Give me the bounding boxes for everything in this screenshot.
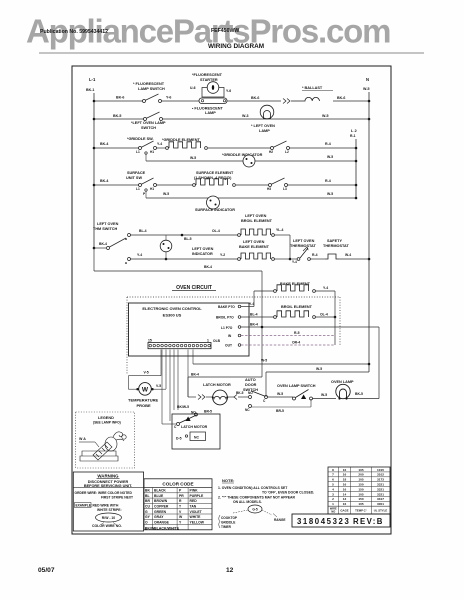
svg-text:W-5: W-5 bbox=[321, 393, 327, 397]
svg-text:SWITCH: SWITCH bbox=[243, 388, 258, 392]
wire OUT dashed bbox=[241, 344, 335, 346]
junction L1-b bbox=[93, 118, 96, 121]
svg-text:COOKTOP: COOKTOP bbox=[221, 516, 238, 520]
svg-text:BROIL ELEMENT: BROIL ELEMENT bbox=[241, 219, 273, 223]
svg-text:BLACK: BLACK bbox=[154, 489, 166, 493]
svg-text:318045323: 318045323 bbox=[297, 517, 350, 526]
svg-text:R-1: R-1 bbox=[350, 134, 356, 138]
svg-text:H3: H3 bbox=[267, 187, 271, 191]
svg-text:OVEN LAMP: OVEN LAMP bbox=[331, 380, 354, 384]
L2 bus wire bbox=[355, 139, 357, 198]
svg-text:Publication No. 5995434412: Publication No. 5995434412 bbox=[40, 29, 108, 35]
svg-text:LEFT OVEN: LEFT OVEN bbox=[192, 247, 214, 251]
svg-text:BK-6: BK-6 bbox=[116, 96, 124, 100]
svg-text:L-1: L-1 bbox=[89, 77, 96, 82]
svg-text:GREEN: GREEN bbox=[154, 510, 167, 514]
svg-text:YELLOW: YELLOW bbox=[190, 520, 205, 524]
svg-text:O: O bbox=[145, 520, 148, 524]
svg-text:BK-6: BK-6 bbox=[337, 96, 345, 100]
svg-text:1: 1 bbox=[207, 339, 209, 343]
svg-text:2. "*" THESE COMPONENTS MAY NO: 2. "*" THESE COMPONENTS MAY NOT APPEAR bbox=[218, 496, 295, 500]
svg-text:BLUE: BLUE bbox=[154, 494, 164, 498]
svg-text:W-4: W-4 bbox=[345, 253, 351, 257]
wire row4 left bbox=[94, 184, 139, 186]
svg-text:UL STYLE: UL STYLE bbox=[374, 509, 388, 513]
svg-text:NO: NO bbox=[191, 411, 196, 415]
svg-text:D-5: D-5 bbox=[176, 437, 182, 441]
svg-text:LAMP: LAMP bbox=[259, 129, 270, 133]
svg-text:3102: 3102 bbox=[377, 473, 384, 477]
junction L1-c bbox=[93, 147, 96, 150]
junction L1-row bbox=[261, 326, 264, 329]
wire griddle indicator bbox=[146, 160, 356, 162]
wire lamp switch to lamp bbox=[313, 398, 337, 400]
svg-text:1: 1 bbox=[332, 502, 334, 506]
svg-text:8: 8 bbox=[332, 468, 334, 472]
svg-text:ORANGE: ORANGE bbox=[154, 520, 170, 524]
svg-text:GRIDDLE: GRIDDLE bbox=[221, 521, 235, 525]
svg-text:YL-4: YL-4 bbox=[276, 228, 283, 232]
latch motor cam switch bbox=[177, 423, 180, 426]
svg-text:THERMOSTAT: THERMOSTAT bbox=[290, 244, 316, 248]
svg-text:150: 150 bbox=[358, 497, 363, 501]
svg-text:Y-6: Y-6 bbox=[226, 89, 231, 93]
svg-text:BROIL P7O: BROIL P7O bbox=[216, 316, 234, 320]
wire row1 to N bbox=[333, 100, 369, 102]
disconnect latch left bbox=[198, 395, 201, 400]
oven circuit dashed box bbox=[127, 296, 340, 298]
svg-text:NC: NC bbox=[194, 435, 199, 439]
svg-text:1. OVEN CONDITION) ALL CONTROL: 1. OVEN CONDITION) ALL CONTROLS SET bbox=[218, 486, 288, 490]
svg-text:THM SWITCH: THM SWITCH bbox=[93, 227, 118, 231]
svg-text:CU: CU bbox=[145, 505, 150, 509]
wire gauge table bbox=[328, 467, 390, 514]
svg-text:BK-4: BK-4 bbox=[250, 323, 258, 327]
svg-text:BAKE ELEMENT: BAKE ELEMENT bbox=[239, 245, 270, 249]
temperature probe bbox=[139, 383, 152, 396]
svg-text:WIRING DIAGRAM: WIRING DIAGRAM bbox=[208, 43, 264, 50]
svg-text:105: 105 bbox=[358, 492, 363, 496]
svg-text:* BALLAST: * BALLAST bbox=[302, 86, 323, 90]
svg-text:2: 2 bbox=[332, 497, 334, 501]
svg-text:STARTER: STARTER bbox=[200, 78, 218, 82]
svg-text:150: 150 bbox=[358, 487, 363, 491]
svg-text:16: 16 bbox=[343, 483, 347, 487]
junction broil-a bbox=[181, 234, 184, 237]
svg-text:W-5: W-5 bbox=[327, 192, 333, 196]
junction L1-a bbox=[93, 100, 96, 103]
svg-text:FIRST STRIPE NEXT: FIRST STRIPE NEXT bbox=[101, 496, 133, 500]
oven lamp switch marker bbox=[301, 395, 306, 400]
wire row4 mid2 bbox=[236, 184, 269, 186]
svg-text:W: W bbox=[142, 386, 149, 393]
left oven lamp switch bbox=[144, 118, 147, 121]
svg-text:18: 18 bbox=[343, 478, 347, 482]
svg-text:RED: RED bbox=[190, 499, 198, 503]
svg-text:05/07: 05/07 bbox=[38, 567, 55, 574]
svg-text:EXAMPLE:: EXAMPLE: bbox=[76, 504, 92, 508]
svg-text:BR-5: BR-5 bbox=[276, 409, 284, 413]
svg-text:*GRIDDLE INDICATOR: *GRIDDLE INDICATOR bbox=[222, 153, 263, 157]
electronic oven control U1 bbox=[129, 303, 250, 356]
svg-text:16: 16 bbox=[343, 473, 347, 477]
wire neutral W-5 row bbox=[193, 363, 369, 365]
svg-text:BK-4: BK-4 bbox=[191, 373, 199, 377]
latch cam marker bbox=[186, 417, 191, 422]
svg-text:DOOR: DOOR bbox=[245, 383, 257, 387]
svg-text:BLACK/WHITE: BLACK/WHITE bbox=[154, 526, 180, 530]
svg-text:*FLUORESCENT: *FLUORESCENT bbox=[192, 73, 223, 77]
wire door sw to lamp switch bbox=[268, 396, 294, 398]
wire broil right bbox=[275, 234, 291, 236]
svg-text:(1 SHOWN, 4 REQ'D): (1 SHOWN, 4 REQ'D) bbox=[194, 176, 232, 180]
wire latch to door switch bbox=[238, 396, 248, 398]
wire strip drop 1 bbox=[160, 350, 162, 376]
svg-text:R-4: R-4 bbox=[325, 142, 331, 146]
legend lamp drawing bbox=[80, 451, 118, 461]
svg-text:OLB: OLB bbox=[213, 339, 221, 343]
wire row1 right bbox=[227, 100, 281, 102]
svg-text:*GRIDDLE SW.: *GRIDDLE SW. bbox=[127, 137, 154, 141]
svg-text:W-5: W-5 bbox=[327, 155, 333, 159]
wire row3 to L2 bbox=[289, 147, 356, 149]
svg-text:1015: 1015 bbox=[377, 468, 384, 472]
N bus wire bbox=[368, 92, 370, 372]
junction broil return bbox=[334, 316, 337, 319]
header underline bbox=[39, 52, 424, 54]
wire L1 power row bbox=[241, 326, 379, 328]
disconnect plug row1 bbox=[283, 99, 286, 104]
wire bake power bbox=[241, 306, 254, 308]
svg-text:PR: PR bbox=[179, 494, 184, 498]
svg-text:SWITCH: SWITCH bbox=[141, 126, 156, 130]
svg-text:Y-4: Y-4 bbox=[249, 302, 254, 306]
wire row4 mid bbox=[156, 184, 193, 186]
svg-text:PURPLE: PURPLE bbox=[190, 494, 204, 498]
disconnect latch right bbox=[234, 395, 237, 400]
svg-text:BL: BL bbox=[145, 494, 150, 498]
svg-text:W-5: W-5 bbox=[261, 359, 267, 363]
junction L2-d bbox=[355, 197, 358, 200]
svg-text:R-5: R-5 bbox=[294, 331, 300, 335]
left oven lamp bbox=[260, 105, 274, 119]
svg-text:TO 'OFF', EVEN DOOR CLOSED.: TO 'OFF', EVEN DOOR CLOSED. bbox=[262, 491, 314, 495]
svg-text:GRAY: GRAY bbox=[154, 515, 164, 519]
junction N-c bbox=[368, 258, 371, 261]
svg-text:LATCH MOTOR: LATCH MOTOR bbox=[203, 383, 231, 387]
svg-text:LEFT OVEN: LEFT OVEN bbox=[293, 239, 315, 243]
svg-text:105: 105 bbox=[358, 468, 363, 472]
svg-text:WHITE STRIPE:: WHITE STRIPE: bbox=[97, 508, 122, 512]
wire strip drop 3 bbox=[165, 350, 167, 390]
svg-text:SURFACE INDICATOR: SURFACE INDICATOR bbox=[195, 208, 235, 212]
svg-text:OL-4: OL-4 bbox=[212, 229, 220, 233]
wire row1 mid bbox=[161, 100, 200, 102]
wire strip drop 8 bbox=[192, 350, 194, 365]
part number box bbox=[292, 514, 390, 527]
svg-text:BL-4: BL-4 bbox=[250, 313, 258, 317]
svg-text:Y-6: Y-6 bbox=[166, 96, 171, 100]
svg-text:V-5: V-5 bbox=[144, 371, 149, 375]
junction N-b bbox=[368, 118, 371, 121]
svg-text:3173: 3173 bbox=[377, 478, 384, 482]
svg-text:ES300 US: ES300 US bbox=[163, 313, 182, 318]
svg-text:W-5: W-5 bbox=[363, 87, 370, 91]
wire strip drop 6 bbox=[177, 350, 179, 411]
svg-text:V-5: V-5 bbox=[156, 384, 161, 388]
svg-text:LEFT OVEN: LEFT OVEN bbox=[245, 214, 267, 218]
svg-text:3: 3 bbox=[332, 492, 334, 496]
svg-text:W-5: W-5 bbox=[277, 392, 283, 396]
svg-text:14: 14 bbox=[343, 492, 347, 496]
svg-text:BK: BK bbox=[145, 489, 150, 493]
latch NC terminal box bbox=[190, 432, 206, 441]
svg-text:150: 150 bbox=[358, 483, 363, 487]
warning box bbox=[73, 472, 143, 531]
svg-text:WARNING: WARNING bbox=[97, 474, 119, 479]
svg-text:Y-4: Y-4 bbox=[323, 286, 328, 290]
svg-text:LATCH MOTOR: LATCH MOTOR bbox=[181, 425, 208, 429]
svg-text:3001: 3001 bbox=[377, 502, 384, 506]
wire safety to N bbox=[339, 258, 369, 260]
svg-text:LAMP SWITCH: LAMP SWITCH bbox=[138, 87, 165, 91]
svg-text:W-5: W-5 bbox=[322, 114, 329, 118]
svg-text:Y-4: Y-4 bbox=[157, 142, 162, 146]
latch motor switch box bbox=[172, 414, 220, 449]
color code table bbox=[144, 479, 212, 530]
wire strip drop 4 bbox=[169, 350, 171, 422]
svg-text:LEGEND: LEGEND bbox=[98, 416, 114, 420]
svg-text:W-5: W-5 bbox=[316, 367, 322, 371]
svg-text:R/W - 10: R/W - 10 bbox=[102, 516, 115, 520]
svg-text:OVEN LAMP SWITCH: OVEN LAMP SWITCH bbox=[277, 384, 316, 388]
svg-text:OL-4: OL-4 bbox=[320, 313, 328, 317]
svg-text:3317: 3317 bbox=[377, 497, 384, 501]
svg-text:Y-4: Y-4 bbox=[137, 253, 142, 257]
svg-text:200: 200 bbox=[358, 473, 363, 477]
wire lamp riser to L1 bbox=[378, 327, 380, 399]
svg-text:L1: L1 bbox=[136, 187, 140, 191]
svg-text:L1 P7O: L1 P7O bbox=[221, 326, 233, 330]
wire strip drop 7 bbox=[187, 350, 189, 398]
griddle thermostat switch bbox=[271, 147, 274, 150]
surface switch pilot terminal bbox=[145, 189, 147, 191]
auto door switch NC contact bbox=[249, 405, 252, 408]
svg-text:N: N bbox=[366, 77, 369, 82]
svg-text:INDICATOR: INDICATOR bbox=[192, 252, 213, 256]
wire row3 mid2 bbox=[208, 147, 271, 149]
svg-text:*LEFT OVEN LAMP: *LEFT OVEN LAMP bbox=[131, 121, 166, 125]
svg-text:105: 105 bbox=[358, 478, 363, 482]
wire strip drop 2 bbox=[161, 350, 163, 425]
svg-text:5: 5 bbox=[332, 483, 334, 487]
surface thermostat switch bbox=[269, 184, 272, 187]
svg-text:W A: W A bbox=[79, 437, 86, 441]
svg-text:RANGE: RANGE bbox=[274, 518, 286, 522]
wire L1 drop to oven circuit bbox=[93, 248, 95, 271]
junction L1-e bbox=[93, 247, 96, 250]
svg-text:BAKE P7O: BAKE P7O bbox=[218, 305, 235, 309]
svg-text:15: 15 bbox=[148, 339, 152, 343]
svg-text:OUT: OUT bbox=[225, 344, 232, 348]
svg-text:6: 6 bbox=[332, 478, 334, 482]
svg-text:H2: H2 bbox=[269, 150, 273, 154]
svg-text:BK-4: BK-4 bbox=[100, 142, 108, 146]
svg-text:SAFETY: SAFETY bbox=[327, 239, 342, 243]
svg-text:UNIT SW: UNIT SW bbox=[126, 176, 142, 180]
svg-text:LAMP: LAMP bbox=[205, 111, 216, 115]
svg-text:SURFACE: SURFACE bbox=[127, 171, 146, 175]
svg-text:TAN: TAN bbox=[190, 505, 197, 509]
svg-text:BROIL ELEMENT: BROIL ELEMENT bbox=[281, 305, 313, 309]
wire lamp to riser bbox=[347, 398, 379, 400]
svg-text:H1: H1 bbox=[150, 187, 154, 191]
wire bake return bbox=[316, 290, 336, 292]
wire row3 mid bbox=[156, 147, 166, 149]
wire broil return drop bbox=[334, 317, 336, 345]
svg-text:TEMP C°: TEMP C° bbox=[355, 509, 367, 513]
wire code example oval bbox=[96, 513, 122, 522]
svg-text:LEFT OVEN: LEFT OVEN bbox=[97, 222, 119, 226]
svg-text:PROBE: PROBE bbox=[137, 403, 152, 408]
svg-text:COPPER: COPPER bbox=[154, 505, 169, 509]
svg-text:OVEN CIRCUIT: OVEN CIRCUIT bbox=[176, 285, 212, 291]
junction L2-c bbox=[355, 184, 358, 187]
svg-text:ON ALL MODELS.: ON ALL MODELS. bbox=[233, 500, 262, 504]
svg-text:BK-5: BK-5 bbox=[355, 392, 363, 396]
svg-text:16: 16 bbox=[343, 468, 347, 472]
svg-text:REV:B: REV:B bbox=[353, 517, 384, 526]
wire IN dashed bbox=[241, 335, 335, 337]
svg-text:L3: L3 bbox=[283, 187, 287, 191]
svg-text:L1: L1 bbox=[136, 150, 140, 154]
svg-text:FEF450WW: FEF450WW bbox=[211, 28, 239, 34]
svg-text:BK-5: BK-5 bbox=[113, 114, 121, 118]
svg-text:NOTE:: NOTE: bbox=[222, 478, 234, 483]
svg-text:R-4: R-4 bbox=[312, 253, 318, 257]
svg-text:AUTO: AUTO bbox=[245, 378, 256, 382]
svg-text:BK-4: BK-4 bbox=[100, 179, 108, 183]
L1 bus wire bbox=[93, 93, 95, 249]
svg-text:7: 7 bbox=[332, 473, 334, 477]
svg-text:13: 13 bbox=[343, 497, 347, 501]
svg-text:PINK: PINK bbox=[190, 489, 199, 493]
junction L1-d bbox=[93, 184, 96, 187]
svg-text:RED WIRE WITH: RED WIRE WITH bbox=[93, 504, 119, 508]
svg-text:BK-1: BK-1 bbox=[86, 88, 94, 92]
svg-text:BEFORE SERVICING UNIT.: BEFORE SERVICING UNIT. bbox=[84, 484, 132, 488]
wire row2 left bbox=[94, 118, 144, 120]
svg-text:BK-6: BK-6 bbox=[251, 96, 259, 100]
svg-text:BR: BR bbox=[145, 499, 150, 503]
junction bake-a bbox=[165, 258, 168, 261]
svg-text:G-5: G-5 bbox=[252, 508, 258, 512]
svg-text:105: 105 bbox=[358, 502, 363, 506]
svg-text:3321: 3321 bbox=[377, 483, 384, 487]
wire row2 mid bbox=[162, 118, 369, 120]
svg-text:U-6: U-6 bbox=[190, 86, 196, 90]
svg-text:LEFT OVEN: LEFT OVEN bbox=[243, 240, 265, 244]
svg-text:NC: NC bbox=[245, 408, 250, 412]
svg-text:TIMER: TIMER bbox=[221, 525, 232, 529]
svg-text:Y-4: Y-4 bbox=[292, 260, 297, 264]
svg-text:BK/W-5: BK/W-5 bbox=[177, 405, 189, 409]
fluorescent lamp bbox=[199, 98, 227, 104]
svg-text:Y-2: Y-2 bbox=[220, 253, 225, 257]
svg-text:G: G bbox=[145, 510, 148, 514]
left oven indicator lamp riser bbox=[165, 235, 167, 240]
svg-text:WHITE: WHITE bbox=[190, 515, 202, 519]
junction N-d bbox=[368, 363, 371, 366]
svg-text:GY: GY bbox=[145, 515, 151, 519]
svg-text:THERMOSTAT: THERMOSTAT bbox=[323, 244, 349, 248]
svg-text:16: 16 bbox=[343, 487, 347, 491]
left oven indicator lamp bbox=[160, 240, 172, 252]
surface indicator lamp bbox=[207, 196, 220, 209]
wire thermostat-safety bbox=[311, 258, 326, 260]
svg-text:BL-5: BL-5 bbox=[184, 237, 192, 241]
svg-text:(SEE LAMP INFO): (SEE LAMP INFO) bbox=[93, 421, 121, 425]
svg-text:NO: NO bbox=[331, 510, 335, 514]
grounding oval G-5 bbox=[248, 505, 262, 513]
svg-text:4: 4 bbox=[332, 487, 334, 491]
wire broil power bbox=[241, 316, 274, 318]
junction broil-b bbox=[289, 258, 292, 261]
junction L2-a bbox=[355, 147, 358, 150]
fluorescent lamp switch bbox=[143, 100, 146, 103]
svg-text:W-5: W-5 bbox=[190, 156, 196, 160]
EOC terminal strip bbox=[148, 343, 211, 349]
svg-text:L 2: L 2 bbox=[351, 128, 357, 133]
svg-text:COLOR CODE: COLOR CODE bbox=[162, 481, 193, 486]
svg-text:OR-4: OR-4 bbox=[292, 341, 300, 345]
svg-text:*GRIDDLE ELEMENT: *GRIDDLE ELEMENT bbox=[162, 138, 200, 142]
svg-text:VIOLET: VIOLET bbox=[190, 510, 203, 514]
svg-text:3321: 3321 bbox=[377, 492, 384, 496]
svg-text:* FLUORESCENT: * FLUORESCENT bbox=[133, 82, 165, 86]
legend box bbox=[76, 412, 135, 468]
wire bake row bbox=[131, 258, 239, 260]
svg-text:H1: H1 bbox=[150, 150, 154, 154]
svg-text:L2: L2 bbox=[285, 150, 289, 154]
svg-text:R-4: R-4 bbox=[325, 179, 331, 183]
sheet border bbox=[72, 66, 391, 534]
wire row4 to L2 bbox=[287, 184, 356, 186]
svg-text:BROWN: BROWN bbox=[154, 499, 168, 503]
svg-text:SURFACE ELEMENT: SURFACE ELEMENT bbox=[196, 171, 234, 175]
svg-text:TEMPERATURE: TEMPERATURE bbox=[128, 398, 158, 403]
svg-text:BK-4: BK-4 bbox=[99, 242, 107, 246]
svg-text:BK-4: BK-4 bbox=[204, 265, 212, 269]
wire strip drop 5 bbox=[173, 350, 175, 411]
svg-text:3321: 3321 bbox=[377, 487, 384, 491]
wire surface indicator bbox=[146, 197, 356, 199]
svg-text:12: 12 bbox=[226, 567, 234, 574]
svg-text:COLOR WIRE NO.: COLOR WIRE NO. bbox=[92, 524, 122, 528]
svg-text:16: 16 bbox=[343, 502, 347, 506]
svg-text:BR-5: BR-5 bbox=[204, 410, 212, 414]
wire row1 left bbox=[94, 100, 143, 102]
junction N-a bbox=[368, 100, 371, 103]
wire broil row bbox=[131, 234, 239, 236]
svg-text:W-3: W-3 bbox=[242, 114, 249, 118]
wire row3 left bbox=[94, 147, 139, 149]
svg-text:ORDER WIRE: WIRE COLOR NOTED: ORDER WIRE: WIRE COLOR NOTED bbox=[75, 491, 133, 495]
svg-text:ELECTRONIC OVEN CONTROL: ELECTRONIC OVEN CONTROL bbox=[142, 306, 202, 311]
svg-text:* LEFT OVEN: * LEFT OVEN bbox=[251, 124, 275, 128]
svg-text:GAGE: GAGE bbox=[340, 509, 348, 513]
svg-text:BL-4: BL-4 bbox=[139, 229, 147, 233]
